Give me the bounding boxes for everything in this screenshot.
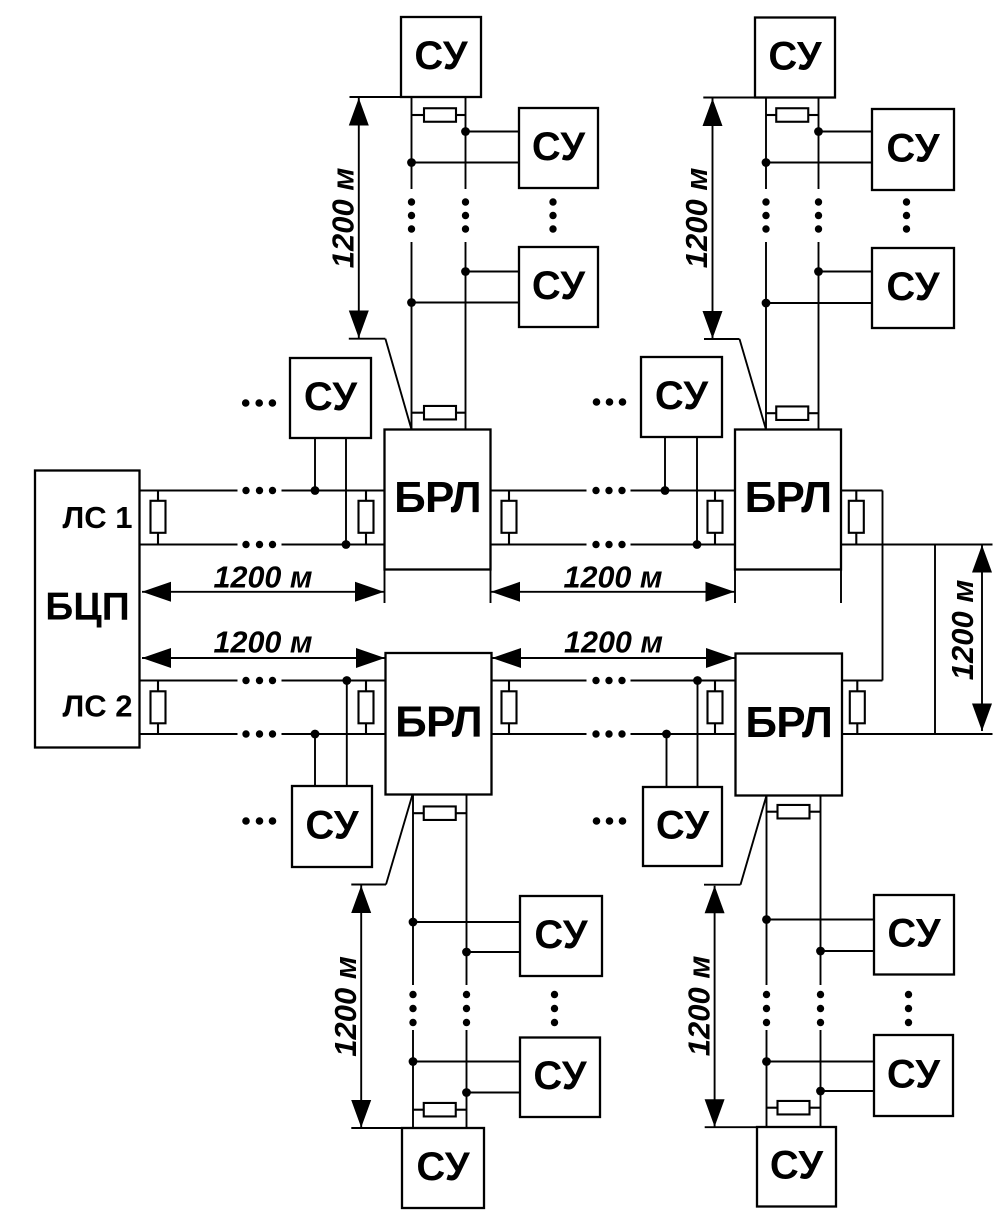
resistor terminator R4 on ЛС1 before БРЛ2 [708, 491, 723, 545]
wire ЛС1 lower line: БЦП to БРЛ1 (with ellipsis gap) [140, 544, 385, 546]
svg-text:БРЛ: БРЛ [394, 473, 481, 522]
junction СУ3 lower tap [407, 298, 416, 307]
svg-text:1200 м: 1200 м [328, 956, 363, 1057]
svg-text:СУ: СУ [768, 34, 822, 78]
ellipsis dots on ЛС1 upper line mid span [592, 487, 625, 494]
resistor terminator R18 bottom of БРЛ4 drop pair [767, 1101, 821, 1115]
vertical ellipsis dots right line БРЛ4 drop [817, 991, 824, 1026]
wire ЛС2 upper line: БЦП to БРЛ3 (with ellipsis gap) [140, 680, 386, 682]
wire ЛС1 upper line: БРЛ1 to БРЛ2 (with ellipsis gap) [491, 490, 736, 492]
junction СУ2 lower tap [407, 158, 416, 167]
junction СУ5 drop on ЛС1 lower [693, 540, 702, 549]
resistor terminator R1 on ЛС1 at БЦП [151, 491, 166, 545]
resistor terminator R8 on ЛС2 after БРЛ3 [502, 681, 517, 735]
svg-text:СУ: СУ [886, 126, 940, 170]
svg-text:БРЛ: БРЛ [745, 473, 832, 522]
wire ЛС2 lower line: БРЛ3 to БРЛ4 (with ellipsis gap) [492, 733, 736, 735]
wire drops СУ4 to ЛС1 bus [315, 438, 346, 545]
svg-text:1200 м: 1200 м [679, 168, 714, 269]
wire ЛС1 upper line: БЦП to БРЛ1 (with ellipsis gap) [140, 490, 385, 492]
dimension 1200 м vertical branch of БРЛ3 [328, 795, 413, 1129]
wire tap to СУ11 upper [413, 921, 520, 923]
svg-text:СУ: СУ [304, 375, 358, 419]
dimension 1200 м vertical branch of БРЛ4 [682, 796, 767, 1128]
wire ЛС2 upper line: БРЛ3 to БРЛ4 (with ellipsis gap) [492, 680, 736, 682]
svg-text:БЦП: БЦП [45, 586, 130, 629]
wire ЛС1 lower line: БРЛ2 rightwards (dimension boundary) and loop down [841, 545, 993, 735]
svg-text:БРЛ: БРЛ [395, 698, 482, 747]
vertical ellipsis dots left line БРЛ1 drop [408, 198, 415, 232]
svg-text:СУ: СУ [305, 803, 359, 847]
wire vertical drop pair: БРЛ3 to bottom СУ [413, 795, 467, 1129]
wire ЛС2 lower line: БЦП to БРЛ3 (with ellipsis gap) [140, 733, 386, 735]
wire tap to СУ12 lower [467, 1092, 521, 1094]
svg-text:СУ: СУ [416, 1145, 470, 1189]
extension lines below БРЛ2 [735, 570, 841, 604]
ellipsis dots on ЛС2 upper line mid span [592, 677, 625, 684]
block БЦП (central processor) [35, 471, 140, 748]
block СУ1 top of БРЛ1 branch [401, 17, 481, 97]
svg-text:1200 м: 1200 м [945, 580, 980, 681]
svg-text:СУ: СУ [532, 125, 586, 169]
vertical ellipsis dots left line БРЛ2 drop [762, 198, 769, 232]
junction СУ12 upper tap [409, 1057, 418, 1066]
resistor terminator R16 bottom of БРЛ3 drop pair [413, 1103, 467, 1117]
ellipsis dots on ЛС2 lower line left span [242, 730, 276, 737]
svg-text:СУ: СУ [886, 265, 940, 309]
junction СУ4 drop on ЛС1 lower [342, 540, 351, 549]
block СУ2 side of БРЛ1 branch [519, 108, 598, 188]
wire tap to СУ3 lower [412, 302, 520, 304]
resistor terminator R15 top of БРЛ3 drop pair [413, 806, 467, 820]
extension lines below БРЛ1 [385, 570, 491, 604]
ellipsis dots on ЛС1 lower line mid span [592, 541, 625, 548]
resistor terminator R10 on ЛС2 after БРЛ4 [850, 681, 865, 735]
svg-text:1200 м: 1200 м [214, 626, 313, 660]
block СУ15 side of БРЛ4 branch [874, 1035, 953, 1116]
resistor terminator R17 top of БРЛ4 drop pair [767, 805, 821, 819]
junction СУ15 lower tap [816, 1087, 825, 1096]
block СУ14 side of БРЛ4 branch [874, 895, 954, 975]
svg-text:СУ: СУ [656, 803, 710, 847]
wire tap to СУ8 lower [766, 302, 872, 304]
junction СУ8 lower tap [762, 299, 771, 308]
ellipsis dots on ЛС2 lower line mid span [592, 730, 625, 737]
junction СУ15 upper tap [762, 1057, 771, 1066]
wire tap to СУ2 upper [466, 131, 520, 133]
svg-text:ЛС 2: ЛС 2 [63, 689, 133, 724]
dimension 1200 м БЦП-БРЛ3 (ЛС2) [142, 626, 385, 669]
dimension 1200 м vertical branch of БРЛ2 [679, 98, 766, 430]
ellipsis dots on ЛС2 upper line left span [242, 677, 276, 684]
wire tap to СУ7 upper [819, 131, 873, 133]
wire ЛС1 lower line: БРЛ1 to БРЛ2 (with ellipsis gap) [491, 544, 736, 546]
ellipsis dots before СУ4 [242, 399, 276, 407]
block СУ4 on ЛС1 left [290, 358, 371, 438]
dimension 1200 м БЦП-БРЛ1 (ЛС1) [142, 560, 384, 602]
ellipsis dots before СУ9 [242, 817, 276, 825]
block СУ16 bottom of БРЛ4 branch [757, 1127, 836, 1207]
block СУ7 side of БРЛ2 branch [872, 109, 954, 190]
junction СУ12 lower tap [462, 1088, 471, 1097]
resistor terminator R9 on ЛС2 before БРЛ4 [708, 681, 723, 735]
resistor terminator R6 on ЛС2 at БЦП [151, 681, 166, 735]
svg-text:СУ: СУ [770, 1144, 824, 1188]
resistor terminator R11 top of БРЛ1 drop pair [412, 108, 466, 122]
svg-text:СУ: СУ [414, 34, 468, 78]
junction СУ9 drop on ЛС2 lower [311, 730, 320, 739]
resistor terminator R3 on ЛС1 after БРЛ1 [502, 491, 517, 545]
wire vertical drop pair: top СУ to БРЛ2 [766, 98, 819, 430]
block СУ3 side of БРЛ1 branch [519, 247, 598, 327]
svg-text:ЛС 1: ЛС 1 [63, 500, 133, 535]
block СУ9 on ЛС2 left [292, 786, 372, 867]
junction СУ5 drop on ЛС1 upper [661, 486, 670, 495]
block БРЛ1 (upper-left repeater) [385, 430, 491, 570]
junction СУ14 upper tap [762, 915, 771, 924]
wire tap to СУ8 upper [819, 271, 873, 273]
resistor terminator R2 on ЛС1 before БРЛ1 [359, 491, 374, 545]
wire tap to СУ14 upper [767, 919, 875, 921]
svg-text:СУ: СУ [532, 264, 586, 308]
vertical ellipsis dots СУ column БРЛ4 branch [905, 991, 912, 1026]
resistor terminator R13 top of БРЛ2 drop pair [766, 108, 819, 122]
block СУ12 side of БРЛ3 branch [520, 1038, 600, 1118]
ellipsis dots on ЛС1 lower line left span [242, 541, 276, 548]
wire tap to СУ15 lower [821, 1090, 875, 1092]
svg-text:СУ: СУ [534, 913, 588, 957]
junction СУ8 upper tap [814, 267, 823, 276]
vertical ellipsis dots right line БРЛ2 drop [815, 198, 822, 232]
wire drops СУ10 to ЛС2 bus [667, 681, 698, 788]
dimension 1200 м БРЛ3-БРЛ4 (ЛС2) [492, 626, 735, 669]
resistor terminator R12 bottom of БРЛ1 drop pair [412, 406, 466, 420]
junction СУ3 upper tap [461, 267, 470, 276]
block СУ13 bottom of БРЛ3 branch [402, 1128, 484, 1208]
svg-text:1200 м: 1200 м [564, 626, 663, 660]
block БРЛ3 (lower-left repeater) [386, 653, 492, 795]
dimension 1200 м vertical branch of БРЛ1 [326, 97, 412, 430]
vertical ellipsis dots СУ column БРЛ3 branch [551, 991, 558, 1026]
ellipsis dots before СУ5 [593, 398, 627, 406]
junction СУ10 drop on ЛС2 upper [693, 676, 702, 685]
vertical ellipsis dots СУ column БРЛ2 branch [903, 198, 910, 232]
junction СУ7 lower tap [762, 158, 771, 167]
junction СУ9 drop on ЛС2 upper [342, 676, 351, 685]
block СУ6 top of БРЛ2 branch [755, 18, 835, 98]
wire vertical drop pair: БРЛ4 to bottom СУ [767, 796, 821, 1128]
junction СУ11 upper tap [409, 918, 418, 927]
vertical ellipsis dots left line БРЛ4 drop [763, 991, 770, 1026]
wire drops СУ9 to ЛС2 bus [315, 681, 347, 787]
wire tap to СУ15 upper [767, 1061, 875, 1063]
dimension 1200 м БРЛ1-БРЛ2 (ЛС1) [491, 560, 735, 602]
resistor terminator R5 on ЛС1 after БРЛ2 [849, 491, 864, 545]
svg-text:СУ: СУ [887, 1052, 941, 1096]
vertical ellipsis dots СУ column БРЛ1 branch [549, 198, 556, 232]
vertical ellipsis dots right line БРЛ3 drop [463, 991, 470, 1026]
svg-text:СУ: СУ [533, 1054, 587, 1098]
vertical ellipsis dots right line БРЛ1 drop [462, 198, 469, 232]
svg-text:1200 м: 1200 м [214, 560, 313, 594]
svg-text:СУ: СУ [655, 374, 709, 418]
block СУ8 side of БРЛ2 branch [872, 248, 954, 328]
svg-text:СУ: СУ [887, 912, 941, 956]
wire tap to СУ7 lower [766, 162, 872, 164]
block СУ10 on ЛС2 right [643, 787, 722, 866]
svg-text:1200 м: 1200 м [564, 560, 663, 594]
block СУ5 on ЛС1 right [641, 357, 722, 437]
wire tap to СУ2 lower [412, 162, 520, 164]
wire tap to СУ12 upper [413, 1061, 520, 1063]
junction СУ4 drop on ЛС1 upper [311, 486, 320, 495]
svg-text:1200 м: 1200 м [682, 956, 717, 1057]
svg-text:БРЛ: БРЛ [745, 698, 832, 747]
junction СУ2 upper tap [461, 127, 470, 136]
wire tap to СУ3 upper [466, 271, 520, 273]
resistor terminator R7 on ЛС2 before БРЛ3 [359, 681, 374, 735]
ellipsis dots before СУ10 [593, 817, 627, 825]
wire tap to СУ11 lower [467, 951, 521, 953]
block БРЛ2 (upper-right repeater) [735, 430, 841, 570]
wire ЛС1 upper line: БРЛ2 to right loop corner, down to ЛС2 row [841, 491, 883, 681]
wire tap to СУ14 lower [821, 950, 875, 952]
wire ЛС2 lower line: БРЛ4 rightwards (dimension boundary) [842, 733, 993, 735]
svg-text:1200 м: 1200 м [326, 168, 361, 269]
wire vertical drop pair: top СУ to БРЛ1 [412, 97, 466, 430]
vertical ellipsis dots left line БРЛ3 drop [409, 991, 416, 1026]
wire drops СУ5 to ЛС1 bus [665, 437, 697, 545]
ellipsis dots on ЛС1 upper line left span [242, 487, 276, 494]
junction СУ10 drop on ЛС2 lower [662, 730, 671, 739]
block БРЛ4 (lower-right repeater) [736, 654, 843, 796]
junction СУ11 lower tap [462, 948, 471, 957]
junction СУ7 upper tap [814, 127, 823, 136]
block СУ11 side of БРЛ3 branch [520, 896, 602, 976]
resistor terminator R14 bottom of БРЛ2 drop pair [766, 406, 819, 420]
dimension 1200 м right side between ЛС1 and ЛС2 [945, 545, 992, 731]
junction СУ14 lower tap [816, 947, 825, 956]
